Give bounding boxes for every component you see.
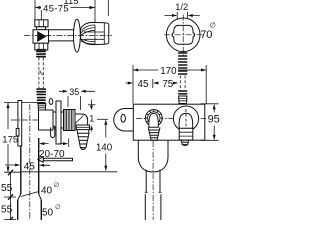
svg-text:45-75: 45-75 (43, 3, 69, 14)
svg-text:∅: ∅ (54, 182, 60, 189)
svg-text:40: 40 (41, 186, 53, 197)
svg-text:∅: ∅ (55, 204, 61, 211)
svg-text:55: 55 (1, 205, 13, 216)
svg-text:35: 35 (69, 87, 79, 97)
svg-text:70: 70 (200, 29, 212, 41)
svg-text:95: 95 (208, 114, 220, 126)
svg-text:1: 1 (89, 114, 94, 124)
svg-text:50: 50 (42, 208, 54, 219)
svg-text:45: 45 (24, 162, 36, 173)
svg-text:∅: ∅ (210, 23, 216, 30)
svg-text:140: 140 (96, 143, 113, 154)
svg-text:170: 170 (160, 66, 177, 77)
svg-text:1/2: 1/2 (175, 2, 188, 12)
svg-text:45: 45 (138, 79, 149, 90)
svg-text:75: 75 (162, 79, 173, 90)
svg-text:55: 55 (1, 183, 13, 194)
